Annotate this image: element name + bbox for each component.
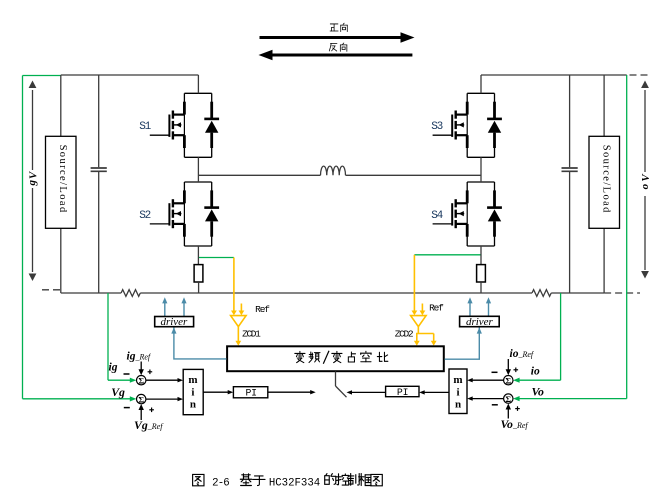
svg-text:PI: PI xyxy=(245,388,256,399)
svg-text:io: io xyxy=(531,366,540,378)
svg-text:Source/Load: Source/Load xyxy=(57,145,68,214)
svg-text:Σ: Σ xyxy=(505,394,511,404)
svg-text:Source/Load: Source/Load xyxy=(600,145,611,214)
svg-text:ZCD2: ZCD2 xyxy=(395,329,414,340)
svg-text:Ref: Ref xyxy=(255,304,270,315)
svg-text:io_Ref: io_Ref xyxy=(510,348,535,360)
svg-text:S1: S1 xyxy=(139,121,151,133)
svg-text:Σ: Σ xyxy=(138,394,144,404)
svg-text:ig: ig xyxy=(109,362,118,374)
svg-text:m: m xyxy=(188,374,197,386)
svg-text:m: m xyxy=(453,374,462,386)
svg-text:o: o xyxy=(639,183,651,189)
svg-text:g: g xyxy=(26,180,38,187)
svg-text:i: i xyxy=(456,387,459,399)
svg-text:Vg: Vg xyxy=(111,385,125,399)
svg-text:HC32F334: HC32F334 xyxy=(269,477,320,489)
svg-text:S4: S4 xyxy=(431,210,443,222)
svg-text:Σ: Σ xyxy=(138,375,144,385)
svg-text:S2: S2 xyxy=(139,210,150,222)
svg-text:S3: S3 xyxy=(431,121,442,133)
svg-text:ZCD1: ZCD1 xyxy=(242,329,261,340)
svg-text:2-6: 2-6 xyxy=(212,477,229,489)
svg-text:i: i xyxy=(191,387,194,399)
svg-text:driver: driver xyxy=(160,316,188,328)
svg-text:Ref: Ref xyxy=(429,303,444,314)
svg-text:PI: PI xyxy=(397,387,408,398)
svg-text:ig_Ref: ig_Ref xyxy=(127,351,152,363)
svg-text:n: n xyxy=(455,399,461,411)
svg-text:Vo: Vo xyxy=(532,384,545,398)
svg-text:Σ: Σ xyxy=(505,375,511,385)
svg-text:n: n xyxy=(190,399,196,411)
svg-text:driver: driver xyxy=(466,316,494,328)
